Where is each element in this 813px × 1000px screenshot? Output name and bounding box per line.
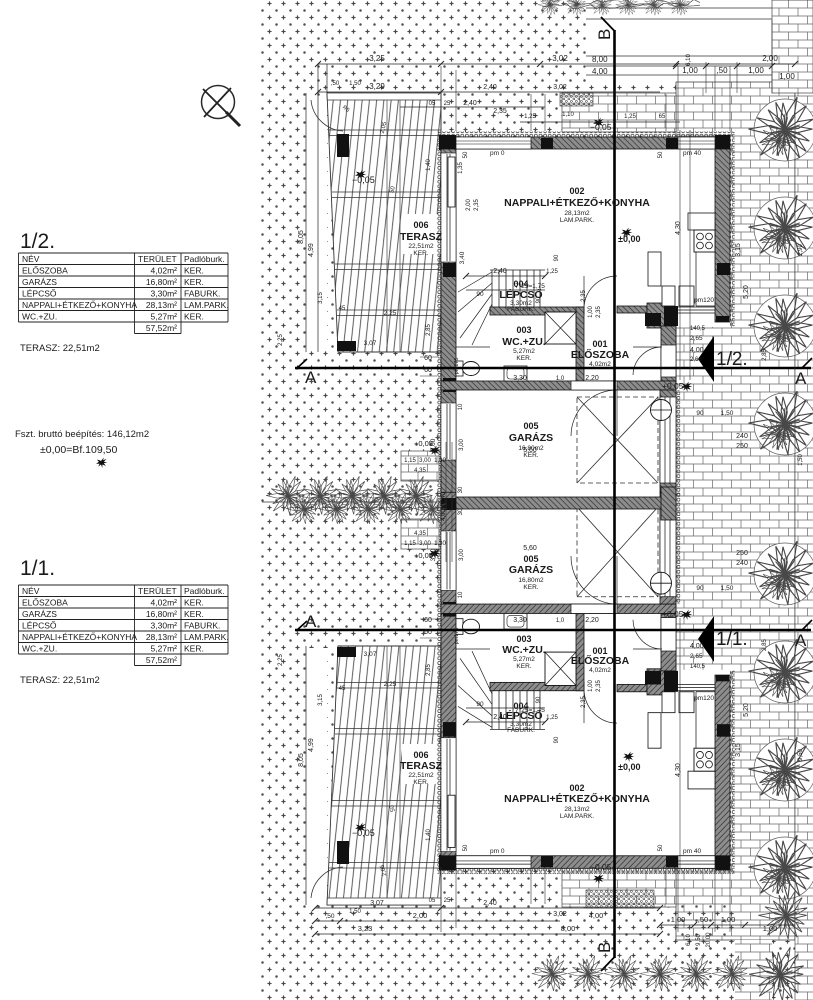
svg-text:4,02m²: 4,02m² xyxy=(151,266,178,276)
terrace 006 upper: deck xyxy=(327,93,441,352)
svg-text:WC.+ZU.: WC.+ZU. xyxy=(502,644,546,656)
svg-text:LAM.PARK.: LAM.PARK. xyxy=(184,300,229,310)
svg-text:50: 50 xyxy=(463,151,469,158)
svg-text:TERÜLET: TERÜLET xyxy=(138,254,177,264)
svg-text:B: B xyxy=(595,29,614,40)
svg-text:3,15: 3,15 xyxy=(735,743,742,757)
svg-text:1,50: 1,50 xyxy=(349,909,361,915)
svg-text:140,5: 140,5 xyxy=(690,664,706,670)
insulation right strip xyxy=(730,137,735,327)
insulation garage right strip xyxy=(676,390,680,497)
svg-text:240: 240 xyxy=(736,433,748,440)
svg-text:65: 65 xyxy=(659,114,666,120)
svg-text:22,51m2: 22,51m2 xyxy=(408,772,434,779)
svg-text:10: 10 xyxy=(458,591,464,598)
svg-text:25: 25 xyxy=(444,898,451,904)
verticals top xyxy=(317,64,319,352)
wall living/wc xyxy=(490,307,584,315)
svg-text:KER.: KER. xyxy=(184,312,204,322)
svg-text:LAM.PARK.: LAM.PARK. xyxy=(560,813,594,820)
kitchen counter xyxy=(688,213,715,230)
svg-text:1,50: 1,50 xyxy=(721,410,734,417)
svg-text:3,07: 3,07 xyxy=(370,900,384,907)
svg-text:28,13m²: 28,13m² xyxy=(146,632,177,642)
svg-text:20,00: 20,00 xyxy=(706,932,712,948)
section line A-A lower xyxy=(295,629,811,631)
svg-text:2,35: 2,35 xyxy=(581,290,587,302)
shrub xyxy=(754,99,813,161)
svg-text:1,30: 1,30 xyxy=(434,541,446,547)
svg-text:4,30: 4,30 xyxy=(675,763,682,777)
svg-text:28,13m²: 28,13m² xyxy=(146,300,177,310)
svg-text:2,90: 2,90 xyxy=(798,244,804,256)
door arc front entry xyxy=(633,347,662,375)
svg-text:pm120: pm120 xyxy=(694,297,714,304)
svg-text:3,23: 3,23 xyxy=(358,924,373,933)
svg-text:1,10: 1,10 xyxy=(562,112,574,118)
svg-text:−0,05: −0,05 xyxy=(590,862,612,872)
shrub xyxy=(754,543,813,605)
gravel strip top xyxy=(560,93,593,106)
svg-text:+0,05: +0,05 xyxy=(662,609,684,619)
corner column NE xyxy=(715,135,730,150)
counter edge xyxy=(696,252,715,306)
svg-text:8,00: 8,00 xyxy=(592,55,608,64)
svg-text:GARÁZS: GARÁZS xyxy=(509,563,553,576)
svg-text:16,80m²: 16,80m² xyxy=(146,609,177,619)
dim row y107 xyxy=(400,106,545,108)
svg-text:pm120: pm120 xyxy=(694,695,714,702)
hedge row mid-left xyxy=(266,476,305,514)
svg-text:2,25: 2,25 xyxy=(384,310,397,317)
svg-text:2,35: 2,35 xyxy=(493,108,507,115)
svg-text:FABURK.: FABURK. xyxy=(507,727,535,734)
svg-text:3,00: 3,00 xyxy=(419,458,431,464)
top wall xyxy=(441,137,730,149)
svg-text:8,05: 8,05 xyxy=(298,230,305,244)
svg-text:4,99: 4,99 xyxy=(308,738,315,752)
section line B-B vertical xyxy=(613,30,616,958)
svg-text:−0,05: −0,05 xyxy=(590,122,612,132)
construction verticals mid-left driveway xyxy=(446,442,452,562)
svg-text:5,27m²: 5,27m² xyxy=(151,312,178,322)
svg-text:±0,00=Bf.109,50: ±0,00=Bf.109,50 xyxy=(40,444,117,456)
svg-text:FABURK.: FABURK. xyxy=(184,289,220,299)
svg-text:FABURK.: FABURK. xyxy=(507,306,535,313)
corner column NW xyxy=(439,135,456,150)
party wall between garages xyxy=(456,497,676,509)
shrub bottom corner xyxy=(758,891,807,939)
brick walk patches front of garages xyxy=(401,451,439,481)
grass fringe bottom xyxy=(532,956,568,991)
bottom dim rows xyxy=(315,907,660,909)
svg-text:KER.: KER. xyxy=(413,250,428,257)
level marker front-left upper xyxy=(429,446,440,457)
level marker entry upper xyxy=(681,382,692,393)
svg-text:90: 90 xyxy=(536,696,542,703)
drain circle SE corner xyxy=(651,400,672,421)
svg-text:KER.: KER. xyxy=(516,663,531,670)
svg-text:4,00: 4,00 xyxy=(690,643,704,650)
svg-text:1/2.: 1/2. xyxy=(716,349,748,370)
svg-text:−0,05: −0,05 xyxy=(352,175,375,185)
svg-text:001: 001 xyxy=(592,339,607,349)
svg-text:1,50: 1,50 xyxy=(349,81,361,87)
svg-text:25: 25 xyxy=(444,101,451,107)
level marker entry lower xyxy=(681,610,692,621)
shrub xyxy=(754,739,813,801)
svg-text:3,15: 3,15 xyxy=(735,243,742,257)
svg-text:3,00: 3,00 xyxy=(459,439,465,451)
svg-text:1/1.: 1/1. xyxy=(716,629,748,650)
dimension chain top y92 xyxy=(318,91,660,93)
svg-text:05: 05 xyxy=(429,101,436,107)
svg-text:50: 50 xyxy=(658,844,664,851)
svg-text:4,02m2: 4,02m2 xyxy=(589,667,611,674)
svg-text:3,30m²: 3,30m² xyxy=(151,289,178,299)
svg-text:A: A xyxy=(795,369,807,388)
svg-text:KER.: KER. xyxy=(413,779,428,786)
svg-text:pm 40: pm 40 xyxy=(683,848,701,855)
svg-text:6,10: 6,10 xyxy=(686,54,692,66)
svg-text:3,02: 3,02 xyxy=(553,84,567,91)
insulation top strip xyxy=(437,132,735,137)
svg-text:1,40: 1,40 xyxy=(426,829,432,841)
svg-text:240: 240 xyxy=(736,560,748,567)
svg-text:90: 90 xyxy=(554,736,560,743)
interior floor xyxy=(441,137,730,327)
svg-text:30: 30 xyxy=(458,486,464,493)
svg-text:TERASZ: 22,51m2: TERASZ: 22,51m2 xyxy=(20,343,100,354)
living room dims upper xyxy=(466,275,545,277)
window top-right xyxy=(678,137,715,149)
wall eloszoba top xyxy=(617,306,647,313)
svg-text:2,20: 2,20 xyxy=(585,375,599,382)
svg-text:57,52m²: 57,52m² xyxy=(146,323,177,333)
living room dims lower xyxy=(466,721,545,723)
svg-text:005: 005 xyxy=(523,421,538,431)
terrace plank joints xyxy=(329,130,441,316)
stair treads xyxy=(492,270,540,307)
level marker top walk xyxy=(593,118,604,129)
svg-text:60: 60 xyxy=(424,367,432,374)
svg-text:3,40: 3,40 xyxy=(459,251,466,264)
shrub xyxy=(754,641,813,703)
svg-text:±0,00: ±0,00 xyxy=(618,234,640,244)
svg-text:3,00: 3,00 xyxy=(419,541,431,547)
dimension chain top y64 xyxy=(318,63,795,65)
svg-text:2,35: 2,35 xyxy=(474,199,480,211)
column left xyxy=(443,263,456,277)
svg-text:4,02m2: 4,02m2 xyxy=(589,361,611,368)
svg-text:2,85: 2,85 xyxy=(762,349,768,361)
svg-text:5,60: 5,60 xyxy=(523,447,537,454)
svg-text:GARÁZS: GARÁZS xyxy=(509,431,553,444)
svg-text:TERASZ: TERASZ xyxy=(400,760,443,772)
svg-text:16,80m²: 16,80m² xyxy=(146,277,177,287)
road area top right xyxy=(586,0,772,82)
garage door leaf dashed xyxy=(577,397,658,483)
terrace 006 lower: deck xyxy=(327,646,441,905)
svg-text:NÉV: NÉV xyxy=(22,254,40,264)
svg-text:ELŐSZOBA: ELŐSZOBA xyxy=(22,598,68,608)
svg-text:KER.: KER. xyxy=(516,355,531,362)
svg-text:2,40: 2,40 xyxy=(483,84,497,91)
svg-text:3,00: 3,00 xyxy=(459,549,465,561)
shrub xyxy=(754,837,813,899)
svg-text:2,66: 2,66 xyxy=(690,357,702,363)
svg-text:7*25=1,75: 7*25=1,75 xyxy=(515,707,545,714)
svg-text:3,29: 3,29 xyxy=(369,82,385,91)
right wall xyxy=(715,149,730,322)
svg-text:4,35: 4,35 xyxy=(414,531,426,537)
svg-text:1,30: 1,30 xyxy=(434,458,446,464)
svg-text:4,02m²: 4,02m² xyxy=(151,598,178,608)
axis line left of party wall xyxy=(262,501,441,503)
svg-text:3,02: 3,02 xyxy=(553,911,567,918)
svg-text:4,00: 4,00 xyxy=(592,67,608,76)
svg-text:pm175: pm175 xyxy=(454,628,460,645)
svg-text:TERASZ: 22,51m2: TERASZ: 22,51m2 xyxy=(20,675,100,686)
svg-text:1,15: 1,15 xyxy=(404,541,416,547)
svg-text:5,27m2: 5,27m2 xyxy=(513,348,535,355)
svg-text:2,40: 2,40 xyxy=(483,900,497,907)
shower xyxy=(545,312,576,344)
svg-text:ELŐSZOBA: ELŐSZOBA xyxy=(22,266,68,276)
svg-text:250: 250 xyxy=(736,550,748,557)
terrace corner arc xyxy=(311,100,343,131)
svg-text:1,15: 1,15 xyxy=(404,458,416,464)
svg-text:90: 90 xyxy=(696,410,704,417)
kitchen window bottom xyxy=(678,307,715,313)
svg-text:45: 45 xyxy=(339,306,346,312)
insulation left strip xyxy=(437,137,442,497)
svg-text:3,02: 3,02 xyxy=(552,54,568,63)
svg-text:4,99: 4,99 xyxy=(308,243,315,257)
svg-text:2,35: 2,35 xyxy=(581,696,587,708)
svg-text:3,00: 3,00 xyxy=(430,438,437,451)
svg-text:2,40: 2,40 xyxy=(493,268,507,275)
svg-text:3,30m²: 3,30m² xyxy=(151,621,178,631)
svg-text:3,07: 3,07 xyxy=(364,651,377,658)
svg-text:006: 006 xyxy=(413,750,428,760)
svg-text:1,00: 1,00 xyxy=(671,915,686,924)
svg-text:4,35: 4,35 xyxy=(414,468,426,474)
svg-text:2,40: 2,40 xyxy=(463,100,477,107)
svg-text:−0,05: −0,05 xyxy=(352,828,375,838)
lower unit mirrored geometry xyxy=(437,492,735,874)
front door opening xyxy=(661,345,676,377)
svg-text:4,00: 4,00 xyxy=(690,347,704,354)
terrace posts xyxy=(337,134,349,157)
garage window left xyxy=(441,403,456,460)
svg-text:28,13m2: 28,13m2 xyxy=(564,210,590,217)
svg-text:4,00: 4,00 xyxy=(589,911,604,920)
shrub xyxy=(754,295,813,357)
svg-text:1,25: 1,25 xyxy=(546,269,558,275)
garage right wall xyxy=(660,390,676,497)
svg-text:,50: ,50 xyxy=(331,81,340,87)
svg-text:2,00: 2,00 xyxy=(413,911,428,920)
svg-text:NAPPALI+ÉTKEZŐ+KONYHA: NAPPALI+ÉTKEZŐ+KONYHA xyxy=(22,632,137,642)
svg-text:2,85: 2,85 xyxy=(426,324,432,336)
svg-text:90: 90 xyxy=(476,291,484,298)
svg-text:006: 006 xyxy=(413,220,428,230)
svg-text:9,50: 9,50 xyxy=(798,749,804,761)
garage front wall xyxy=(441,381,676,390)
svg-text:8,00: 8,00 xyxy=(561,924,576,933)
wc toilet xyxy=(456,361,463,376)
grass fringe top xyxy=(542,0,700,5)
section line A-A upper xyxy=(295,367,811,369)
garage door in wall xyxy=(660,397,676,483)
svg-text:3,15: 3,15 xyxy=(318,694,324,706)
kitchen corner wall xyxy=(647,303,666,328)
svg-text:1,00: 1,00 xyxy=(763,924,778,933)
svg-text:1,50: 1,50 xyxy=(798,454,804,466)
svg-text:2,25: 2,25 xyxy=(278,334,284,346)
svg-text:KER.: KER. xyxy=(184,609,204,619)
right side guide verticals xyxy=(680,20,795,1000)
terrace door/window left xyxy=(441,153,456,262)
svg-text:GARÁZS: GARÁZS xyxy=(22,609,57,619)
svg-text:45: 45 xyxy=(339,686,346,692)
column left garage xyxy=(443,378,456,392)
svg-text:,50: ,50 xyxy=(325,913,334,920)
svg-text:pm 0: pm 0 xyxy=(490,150,505,157)
svg-text:57,52m²: 57,52m² xyxy=(146,655,177,665)
svg-text:5,27m2: 5,27m2 xyxy=(513,656,535,663)
svg-text:60: 60 xyxy=(424,629,432,636)
svg-text:4,30: 4,30 xyxy=(675,221,682,235)
svg-text:KER.: KER. xyxy=(184,598,204,608)
svg-text:WC.+ZU.: WC.+ZU. xyxy=(22,312,57,322)
svg-text:pm 40: pm 40 xyxy=(683,150,701,157)
column top right-mid xyxy=(666,138,678,149)
svg-text:1,25: 1,25 xyxy=(624,114,636,120)
svg-text:28,13m2: 28,13m2 xyxy=(564,806,590,813)
svg-text:5,20: 5,20 xyxy=(743,285,750,299)
level marker living upper xyxy=(621,228,632,239)
wall wc/eloszoba xyxy=(576,307,584,381)
svg-text:1,40: 1,40 xyxy=(426,159,432,171)
svg-text:50: 50 xyxy=(658,151,664,158)
svg-text:1,00: 1,00 xyxy=(748,66,764,75)
wc washbasin xyxy=(504,366,527,381)
svg-text:2,85: 2,85 xyxy=(426,664,432,676)
level marker terrace lower xyxy=(355,823,366,834)
bottom right dim row xyxy=(660,924,795,926)
svg-text:10: 10 xyxy=(458,403,464,410)
svg-text:1,25: 1,25 xyxy=(524,114,536,120)
svg-text:pm 0: pm 0 xyxy=(490,848,505,855)
svg-text:2,35: 2,35 xyxy=(596,306,602,318)
svg-text:NAPPALI+ÉTKEZŐ+KONYHA: NAPPALI+ÉTKEZŐ+KONYHA xyxy=(504,196,650,209)
svg-text:LAM.PARK.: LAM.PARK. xyxy=(560,217,594,224)
svg-text:A: A xyxy=(305,368,317,387)
shrub xyxy=(754,393,813,455)
north symbol xyxy=(202,86,235,119)
white margin left of terraces xyxy=(307,96,327,350)
svg-text:3,25: 3,25 xyxy=(369,54,385,63)
svg-text:2,65: 2,65 xyxy=(690,653,703,660)
door arc eloszoba-garage xyxy=(571,390,617,436)
svg-text:B: B xyxy=(595,942,614,953)
svg-text:TERASZ: TERASZ xyxy=(400,231,443,243)
svg-text:GARÁZS: GARÁZS xyxy=(22,277,57,287)
brick walk top front xyxy=(562,93,676,132)
section arrow lower xyxy=(698,616,714,662)
svg-text:NAPPALI+ÉTKEZŐ+KONYHA: NAPPALI+ÉTKEZŐ+KONYHA xyxy=(22,300,137,310)
svg-text:90: 90 xyxy=(696,585,704,592)
svg-text:22,51m2: 22,51m2 xyxy=(408,243,434,250)
tall cabinet xyxy=(648,252,661,286)
svg-text:05: 05 xyxy=(429,898,436,904)
svg-text:16,80m2: 16,80m2 xyxy=(518,577,544,584)
svg-text:,50: ,50 xyxy=(698,915,708,924)
svg-text:7*25=1,75: 7*25=1,75 xyxy=(515,283,545,290)
svg-text:2,25: 2,25 xyxy=(384,681,397,688)
svg-text:250: 250 xyxy=(736,443,748,450)
svg-text:2,85: 2,85 xyxy=(762,639,768,651)
construction guide lines bottom xyxy=(441,867,730,932)
level marker terrace upper xyxy=(355,170,366,181)
left wall xyxy=(441,149,456,497)
svg-text:1/1.: 1/1. xyxy=(20,557,55,580)
svg-text:1,00: 1,00 xyxy=(682,66,698,75)
svg-text:Padlóburk.: Padlóburk. xyxy=(184,586,225,596)
svg-text:003: 003 xyxy=(516,634,531,644)
terrace corner arc xyxy=(311,867,343,898)
svg-text:1,00: 1,00 xyxy=(779,72,795,81)
svg-text:FABURK.: FABURK. xyxy=(184,621,220,631)
svg-text:50: 50 xyxy=(463,844,469,851)
svg-text:NÉV: NÉV xyxy=(22,586,40,596)
svg-text:Padlóburk.: Padlóburk. xyxy=(184,254,225,264)
shrub xyxy=(754,197,813,259)
svg-text:1,00: 1,00 xyxy=(721,915,736,924)
svg-text:2,00: 2,00 xyxy=(466,199,472,211)
svg-text:ELŐSZOBA: ELŐSZOBA xyxy=(571,654,630,667)
svg-text:LAM.PARK.: LAM.PARK. xyxy=(184,632,229,642)
terrace posts xyxy=(337,841,349,864)
svg-text:1,00: 1,00 xyxy=(588,306,594,318)
svg-text:ELŐSZOBA: ELŐSZOBA xyxy=(571,348,630,361)
svg-text:5,60: 5,60 xyxy=(523,545,537,552)
base cabinets xyxy=(662,286,675,306)
svg-text:60: 60 xyxy=(424,355,432,362)
window top-left xyxy=(456,137,531,149)
stair winders xyxy=(458,272,492,345)
svg-text:140,5: 140,5 xyxy=(690,326,706,332)
svg-text:TERÜLET: TERÜLET xyxy=(138,586,177,596)
block in right wall xyxy=(717,263,730,275)
svg-text:1,0: 1,0 xyxy=(556,618,565,624)
column top mid xyxy=(541,138,553,149)
svg-text:KER.: KER. xyxy=(184,266,204,276)
svg-text:5,20: 5,20 xyxy=(743,703,750,717)
svg-text:5,27m²: 5,27m² xyxy=(151,644,178,654)
svg-text:1/2.: 1/2. xyxy=(20,230,55,253)
svg-text:6,10: 6,10 xyxy=(686,934,692,946)
svg-text:002: 002 xyxy=(569,186,584,196)
svg-text:KER.: KER. xyxy=(523,584,538,591)
svg-text:2,25: 2,25 xyxy=(278,654,284,666)
svg-text:3,30: 3,30 xyxy=(513,617,527,624)
svg-text:90: 90 xyxy=(536,296,542,303)
svg-text:NAPPALI+ÉTKEZŐ+KONYHA: NAPPALI+ÉTKEZŐ+KONYHA xyxy=(504,792,650,805)
section arrow upper xyxy=(698,336,714,382)
